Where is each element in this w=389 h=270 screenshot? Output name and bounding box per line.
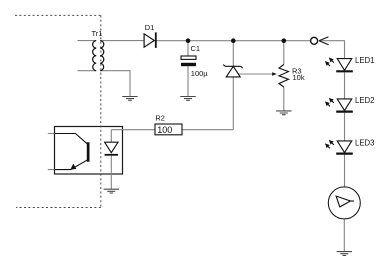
wire R2 left [111, 129, 155, 131]
wire zener anode to R3 wiper [233, 73, 272, 75]
wire opto LED cathode to ground [110, 156, 112, 189]
LED3 [326, 139, 375, 154]
LED2 [326, 96, 375, 112]
ground (C1) [180, 97, 195, 101]
svg-text:100µ: 100µ [191, 69, 209, 78]
wire primary bottom stub [78, 70, 97, 72]
svg-text:LED1: LED1 [355, 56, 375, 65]
wire meter to ground [343, 219, 345, 251]
ground (R3) [276, 111, 291, 115]
wire LED3 to meter [344, 155, 346, 187]
ground (optocoupler LED) [104, 189, 119, 193]
phototransistor (optocoupler output) [55, 134, 90, 170]
resistor R2 [155, 113, 182, 135]
optocoupler OK1 body [55, 127, 123, 175]
ground (transformer secondary) [122, 97, 137, 101]
svg-text:LED3: LED3 [355, 139, 375, 148]
diode D1 [144, 23, 156, 48]
wire secondary top to D1 [100, 40, 144, 42]
svg-text:100: 100 [157, 125, 172, 135]
svg-text:C1: C1 [191, 44, 201, 53]
transformer Tr1 secondary winding [100, 41, 104, 71]
svg-text:D1: D1 [145, 23, 155, 32]
wire secondary bottom to ground [100, 71, 130, 97]
wire LED1 to LED2 [344, 72, 346, 99]
terminal circle and plug [311, 37, 329, 45]
svg-text:R2: R2 [155, 113, 165, 122]
opto LED (optocoupler input) [105, 142, 118, 156]
junction node at R3 [282, 38, 287, 43]
wire C1 column [187, 41, 189, 97]
meter M1 [328, 187, 360, 219]
wire top rail D1 to terminal [156, 40, 311, 42]
wire opto LED anode [110, 130, 112, 143]
svg-text:10k: 10k [293, 73, 305, 82]
svg-text:Tr1: Tr1 [92, 29, 103, 38]
zener diode [223, 65, 243, 77]
junction node at zener [231, 38, 236, 43]
capacitor C1 [181, 44, 208, 78]
transformer Tr1 primary winding [93, 41, 97, 71]
ground (meter) [337, 252, 352, 256]
wire terminal to LED chain corner [321, 41, 345, 59]
wire R2 right [182, 129, 233, 131]
wire opto pin stubs [48, 134, 55, 170]
wire R3 column [283, 41, 285, 111]
wire primary top stub [78, 40, 97, 42]
trimmer R3 [272, 65, 305, 88]
LED1 [326, 56, 375, 72]
junction node at C1 [186, 38, 191, 43]
wire zener column [232, 41, 234, 130]
dashed isolation boundary [15, 15, 101, 207]
wire LED2 to LED3 [344, 113, 346, 141]
svg-text:LED2: LED2 [355, 96, 375, 105]
